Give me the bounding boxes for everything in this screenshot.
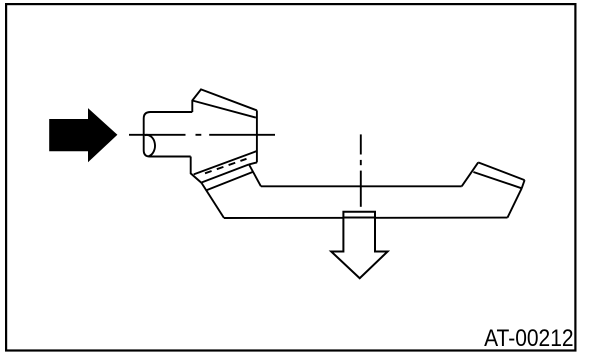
svg-text:AT-00212: AT-00212	[484, 326, 574, 352]
